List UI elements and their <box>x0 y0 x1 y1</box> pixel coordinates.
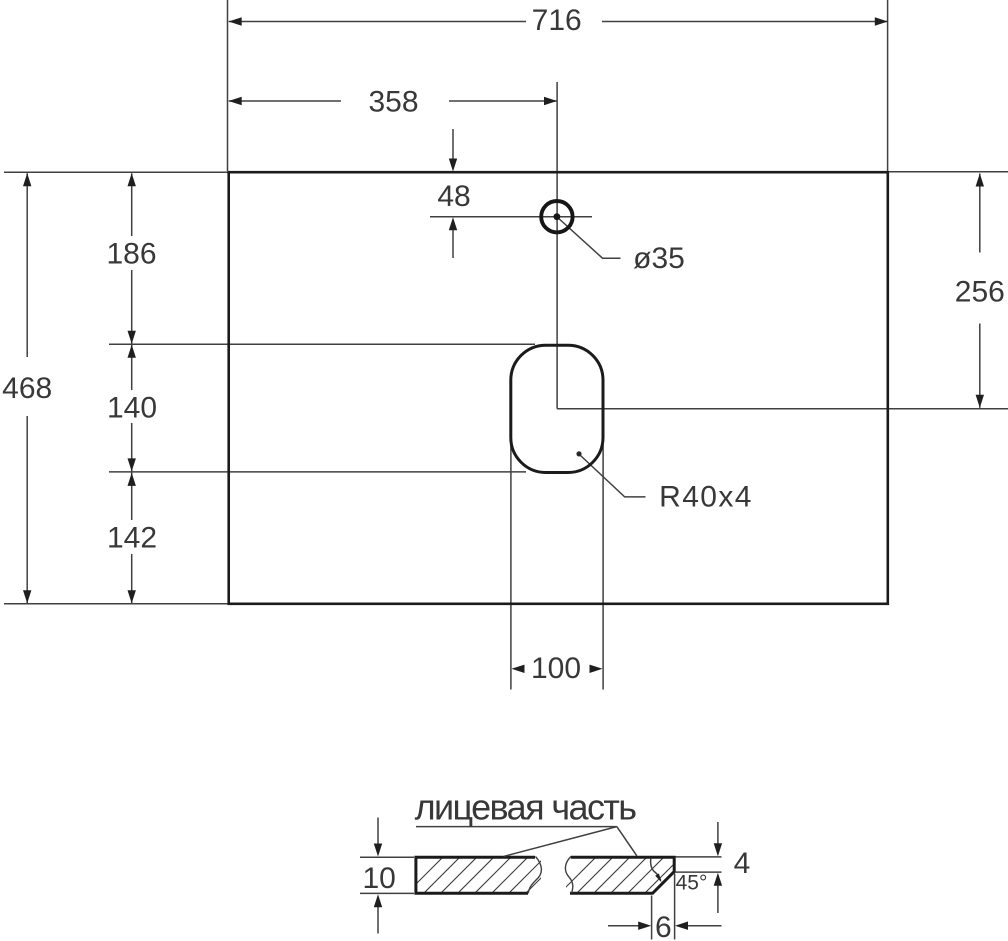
arrowheads 358 <box>229 97 242 105</box>
arrowheads 468 <box>23 173 31 186</box>
svg-text:142: 142 <box>107 522 157 555</box>
svg-text:256: 256 <box>955 276 1005 309</box>
arrowheads 48 <box>449 159 457 172</box>
wire: vertical center line through hole <box>556 82 558 409</box>
svg-text:468: 468 <box>2 372 52 405</box>
leader dot R40x4 <box>576 451 581 456</box>
section left bar outline <box>416 857 535 893</box>
faucet hole circle ø35 <box>541 201 572 232</box>
wire: leader to left bar top <box>504 827 617 857</box>
hatching left bar <box>400 850 586 900</box>
arrowheads 142 <box>128 473 136 486</box>
wire: 48 arrow shafts <box>452 129 454 160</box>
arrowheads 4 <box>714 843 722 856</box>
wire: 10 extension lines <box>360 856 414 858</box>
faucet hole center dot <box>554 213 561 220</box>
wire: vertical extension above right corner <box>887 0 889 171</box>
svg-text:лицевая часть: лицевая часть <box>415 787 637 828</box>
wire: horizontal line at 186 from left to basin <box>109 343 535 345</box>
arrowhead of curved leader at chamfer <box>655 874 661 883</box>
svg-text:10: 10 <box>363 862 396 895</box>
arrowheads 186 <box>128 173 136 186</box>
wire: dimension line 256 <box>979 174 981 253</box>
svg-text:358: 358 <box>368 86 418 119</box>
arrowheads 716 <box>229 17 242 25</box>
wire: 10 arrow shafts <box>377 818 379 845</box>
wire: extension line top edge right <box>888 171 1008 173</box>
wire: dimension line 716 <box>229 21 526 23</box>
wire: dimension line 468 <box>26 173 28 357</box>
basin cutout rounded rectangle R40x4 <box>511 345 603 472</box>
section right bar outline <box>570 857 674 893</box>
wire: horizontal line at basin center to right edge <box>557 408 1008 410</box>
svg-text:6: 6 <box>655 911 672 941</box>
wire: dimension line 358 <box>229 100 341 102</box>
arrowheads 256 <box>976 174 984 187</box>
svg-text:45°: 45° <box>676 872 708 895</box>
svg-text:186: 186 <box>106 238 156 271</box>
wire: basin extension lines for 100 <box>510 445 512 690</box>
wire: extension line bottom edge left <box>4 603 228 605</box>
section left bar break line <box>528 857 541 894</box>
wire: extension line top edge left <box>4 171 228 173</box>
svg-text:4: 4 <box>734 847 751 880</box>
wire: leader underline of face label <box>416 826 617 828</box>
wire: 6 dimension line stubs <box>608 925 639 927</box>
wire: 4 extension lines <box>676 856 722 858</box>
wire: vertical extension above left corner <box>227 0 229 171</box>
svg-text:48: 48 <box>437 180 470 213</box>
svg-text:100: 100 <box>531 652 581 685</box>
svg-text:ø35: ø35 <box>633 242 685 275</box>
wire: horizontal line at 186+140 from left to basin <box>109 471 526 473</box>
wire: leader line hole ø35 <box>557 217 620 258</box>
wire: 48 horizontal line through circle center <box>430 216 592 218</box>
wire: 4 arrow shafts <box>717 822 719 844</box>
countertop outline rectangle <box>229 172 888 604</box>
wire: leader to right bar top <box>617 827 637 856</box>
wire: 6 extension lines <box>651 896 653 940</box>
arrowheads 10 <box>374 844 382 857</box>
svg-text:140: 140 <box>107 392 157 425</box>
arrowheads 140 <box>128 345 136 358</box>
arrowheads 6 <box>638 922 651 930</box>
wire: leader line R40x4 <box>581 456 646 497</box>
svg-text:716: 716 <box>532 4 582 37</box>
wire: dimension line 186/140/142 <box>131 173 133 236</box>
wire: curved leader onto chamfer <box>651 858 661 880</box>
arrowheads 100 <box>512 665 525 673</box>
svg-text:R40x4: R40x4 <box>659 481 753 514</box>
hatching right bar <box>553 850 705 900</box>
section right bar break line <box>565 857 572 894</box>
